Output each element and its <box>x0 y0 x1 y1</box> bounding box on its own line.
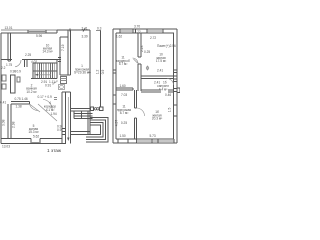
window W1 top <box>28 30 46 33</box>
svg-text:3.08: 3.08 <box>2 119 6 126</box>
interior wall x134.5-136 low <box>135 90 137 139</box>
svg-text:0.25: 0.25 <box>121 121 127 125</box>
door swing bath <box>167 79 174 86</box>
fixture sink <box>59 85 65 90</box>
svg-text:5.7 м²: 5.7 м² <box>119 62 128 66</box>
svg-text:14.3 м²: 14.3 м² <box>42 50 52 54</box>
svg-text:4.02: 4.02 <box>31 60 37 64</box>
external stair nested <box>90 118 108 143</box>
mini step line <box>52 81 58 84</box>
svg-text:0.91: 0.91 <box>45 84 51 88</box>
svg-text:13.03: 13.03 <box>2 145 10 149</box>
svg-text:8.7 м²: 8.7 м² <box>120 111 129 115</box>
svg-text:2.2: 2.2 <box>1 66 6 70</box>
svg-text:1.60: 1.60 <box>120 84 126 88</box>
svg-text:1 этаж: 1 этаж <box>47 148 62 153</box>
bottom window right plan <box>137 139 175 143</box>
small steps right of porch <box>86 137 90 142</box>
entrance arrow right <box>87 72 91 74</box>
svg-text:10.2 м²: 10.2 м² <box>26 90 36 94</box>
window right wall ticks 3 <box>174 105 178 116</box>
shaft room walls x61-70 <box>60 30 71 75</box>
svg-text:7.19: 7.19 <box>61 44 65 51</box>
interior wall x138-141 <box>138 33 141 91</box>
svg-text:20.3 м²: 20.3 м² <box>152 117 162 121</box>
svg-text:0.46: 0.46 <box>165 93 171 97</box>
outer wall top <box>113 29 177 33</box>
wall step x57 <box>56 30 58 33</box>
interior wall x25.5 <box>25 60 28 68</box>
svg-text:0.17 + 0.9: 0.17 + 0.9 <box>38 95 52 99</box>
wall top-right y30 <box>57 29 90 31</box>
svg-text:2.41: 2.41 <box>157 69 163 73</box>
svg-text:0.9: 0.9 <box>101 70 105 75</box>
wall right x90 <box>89 30 91 110</box>
svg-text:1.62: 1.62 <box>116 35 122 39</box>
outer wall left <box>113 29 116 143</box>
wall left x1 <box>0 33 2 144</box>
svg-text:0.41: 0.41 <box>0 101 6 105</box>
fixtures left <box>2 75 20 89</box>
svg-text:0.3: 0.3 <box>97 27 102 31</box>
balcony door ticks <box>174 89 178 92</box>
door swing closet <box>133 58 139 64</box>
porch bottom <box>71 132 91 135</box>
svg-text:2.98: 2.98 <box>12 121 16 128</box>
outer wall bottom <box>113 139 177 143</box>
svg-text:3.70: 3.70 <box>134 25 140 29</box>
window right wall ticks 1 <box>174 70 178 73</box>
svg-text:5.62: 5.62 <box>33 134 39 138</box>
porch top wall y108.5 <box>71 109 91 112</box>
svg-text:0.9: 0.9 <box>57 128 62 132</box>
svg-text:0.75: 0.75 <box>15 97 21 101</box>
wall mid right y76-78.5 <box>141 76 177 79</box>
svg-text:4.1 м²: 4.1 м² <box>46 108 55 112</box>
axis symbol <box>146 66 149 71</box>
corridor arrow down <box>67 97 69 141</box>
wall horizontal thick y103-105.5 <box>11 102 30 105</box>
window left wall ticks low <box>113 95 116 104</box>
dimension tick x84 <box>83 29 85 32</box>
svg-text:2.23: 2.23 <box>140 45 144 52</box>
window left wall ticks <box>113 70 116 73</box>
svg-text:3.41: 3.41 <box>82 27 88 31</box>
svg-text:1.38: 1.38 <box>16 104 22 108</box>
corridor wall double x62-66 <box>62 92 71 144</box>
svg-text:1.75: 1.75 <box>6 63 12 67</box>
svg-text:5.96: 5.96 <box>36 34 42 38</box>
svg-text:0.9: 0.9 <box>17 70 22 74</box>
window right wall ticks 2 <box>174 79 178 82</box>
bottom door left segment <box>118 139 128 143</box>
window top 2 <box>147 29 163 33</box>
porch steps top <box>74 111 93 119</box>
wall horizontal left y88-90 <box>116 88 133 90</box>
porch column boxes <box>91 107 104 111</box>
svg-text:2.25: 2.25 <box>25 53 31 57</box>
window top 1 <box>120 29 133 33</box>
interior wall mid y59.5 <box>1 59 61 61</box>
corridor window ticks <box>62 129 66 135</box>
svg-text:13.01: 13.01 <box>5 26 13 30</box>
dimension line top <box>1 29 57 31</box>
fixture marks right of stairs <box>58 58 61 62</box>
svg-text:1.94: 1.94 <box>51 112 57 116</box>
bottom wall thick left segment <box>1 139 66 144</box>
door arc small room <box>15 60 21 67</box>
svg-text:1.50: 1.50 <box>120 134 126 138</box>
fixture under shaft <box>61 77 67 84</box>
svg-text:1.46: 1.46 <box>22 97 28 101</box>
window top jamb 2 <box>135 29 137 33</box>
fence line between plans <box>96 31 101 108</box>
stairs main <box>31 60 57 79</box>
bottom window glazing <box>31 142 40 144</box>
svg-text:4.57: 4.57 <box>115 120 119 127</box>
svg-text:0.98: 0.98 <box>10 70 16 74</box>
svg-text:2.72: 2.72 <box>150 36 156 40</box>
door diagonal bottom room <box>30 100 58 122</box>
doorway ticks corridor <box>54 98 57 100</box>
porch sides <box>88 110 90 135</box>
corridor right line x70.5 <box>70 92 72 144</box>
outer wall right <box>174 29 178 143</box>
svg-text:4.4 м²: 4.4 м² <box>159 87 168 91</box>
interior wall V1 double x8-10.5 <box>8 33 11 61</box>
dimension tick on top-right wall <box>69 29 71 32</box>
wall top-left y33 <box>1 32 57 34</box>
svg-text:5.73: 5.73 <box>150 134 156 138</box>
wall block x10.5-15 <box>11 75 16 93</box>
wall vertical thick x8-11 low <box>8 104 11 139</box>
svg-text:0.25: 0.25 <box>144 50 150 54</box>
wall y90-92 <box>141 90 174 92</box>
svg-text:7.03: 7.03 <box>121 93 127 97</box>
stairs arrow <box>35 74 51 76</box>
svg-text:1.2: 1.2 <box>95 70 99 75</box>
door swing room16 <box>137 108 145 116</box>
svg-text:3.39: 3.39 <box>82 35 88 39</box>
svg-text:1.5: 1.5 <box>168 108 172 113</box>
balcony box right <box>177 88 180 93</box>
svg-text:Пакет(+)2.56: Пакет(+)2.56 <box>157 44 176 48</box>
svg-text:17.5 м²: 17.5 м² <box>156 59 166 63</box>
